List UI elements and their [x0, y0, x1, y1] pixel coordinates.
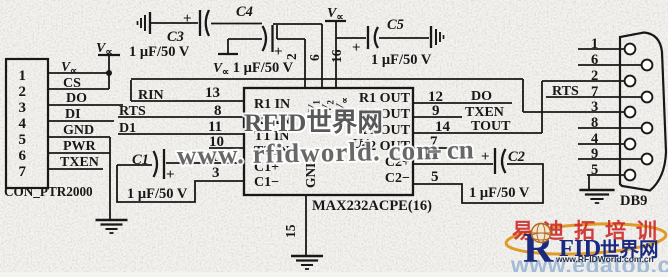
- svg-text:C2: C2: [508, 149, 525, 165]
- svg-text:6: 6: [307, 54, 322, 61]
- svg-text:+: +: [481, 149, 490, 165]
- svg-text:9: 9: [591, 146, 598, 162]
- svg-text:3: 3: [19, 100, 27, 116]
- svg-text:CON_PTR2000: CON_PTR2000: [4, 184, 93, 199]
- svg-text:PWR: PWR: [63, 139, 97, 154]
- svg-text:TOUT: TOUT: [471, 119, 511, 134]
- svg-text:DO: DO: [471, 89, 492, 104]
- svg-text:www. rfidworld. com: www. rfidworld. com: [176, 135, 440, 170]
- svg-text:6: 6: [19, 148, 27, 164]
- svg-text:13: 13: [205, 85, 220, 101]
- svg-text:6: 6: [591, 52, 598, 68]
- svg-text:8: 8: [214, 103, 222, 119]
- svg-text:4: 4: [591, 131, 598, 147]
- svg-text:15: 15: [283, 224, 298, 238]
- svg-text:+: +: [274, 44, 283, 60]
- svg-text:C2−: C2−: [385, 171, 410, 186]
- svg-text:8: 8: [591, 115, 598, 131]
- svg-text:1 μF/50 V: 1 μF/50 V: [129, 44, 190, 60]
- svg-text:C1−: C1−: [254, 175, 279, 190]
- svg-text:C5: C5: [387, 17, 404, 33]
- svg-text:2: 2: [19, 84, 27, 100]
- svg-text:GND: GND: [63, 123, 94, 138]
- svg-text:MAX232ACPE(16): MAX232ACPE(16): [312, 198, 432, 214]
- svg-text:4: 4: [19, 116, 27, 132]
- svg-text:DB9: DB9: [620, 193, 647, 209]
- svg-text:C4: C4: [236, 4, 253, 20]
- svg-text:5: 5: [431, 169, 439, 185]
- svg-text:14: 14: [435, 119, 451, 135]
- svg-text:1 μF/50 V: 1 μF/50 V: [469, 185, 530, 201]
- svg-text:C3: C3: [167, 29, 184, 45]
- svg-text:+: +: [352, 40, 361, 56]
- svg-text:D1: D1: [119, 121, 136, 136]
- svg-text:RFID世界网: RFID世界网: [244, 108, 383, 137]
- svg-text:3: 3: [591, 99, 598, 115]
- svg-text:1 μF/50 V: 1 μF/50 V: [127, 186, 188, 202]
- svg-text:RTS: RTS: [552, 84, 579, 99]
- svg-text:2: 2: [284, 53, 299, 60]
- svg-text:TXEN: TXEN: [465, 105, 504, 120]
- svg-text:11: 11: [208, 119, 222, 135]
- svg-text:5: 5: [19, 132, 27, 148]
- svg-text:7: 7: [591, 84, 598, 100]
- svg-text:1: 1: [591, 36, 598, 52]
- svg-text:9: 9: [432, 103, 440, 119]
- svg-text:DO: DO: [66, 91, 87, 106]
- svg-text:+: +: [183, 11, 192, 27]
- svg-text:2: 2: [591, 68, 598, 84]
- svg-text:DI: DI: [65, 107, 81, 122]
- svg-text:R1 OUT: R1 OUT: [359, 91, 411, 106]
- svg-text:RIN: RIN: [138, 88, 164, 103]
- svg-text:5: 5: [591, 162, 598, 178]
- svg-text:RTS: RTS: [119, 104, 146, 119]
- svg-text:1 μF/50 V: 1 μF/50 V: [371, 52, 432, 68]
- svg-text:cn: cn: [446, 134, 474, 165]
- svg-text:www.RFIDWorld.com.cn: www.RFIDWorld.com.cn: [555, 254, 654, 264]
- svg-text:1: 1: [19, 68, 27, 84]
- svg-text:7: 7: [19, 164, 27, 180]
- svg-text:+: +: [166, 167, 175, 183]
- svg-text:TXEN: TXEN: [60, 155, 99, 170]
- svg-text:CS: CS: [63, 76, 81, 91]
